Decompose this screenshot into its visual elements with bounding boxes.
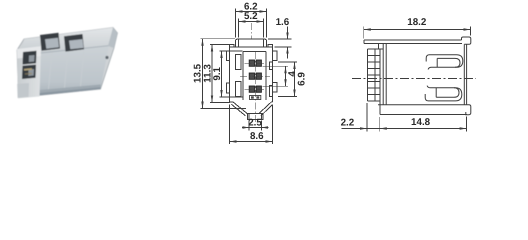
dimensions 4 / 6.9: vertical dim lines and extension lines (right) <box>263 65 289 67</box>
front opening lower <box>22 65 36 79</box>
arrowheads dimension 5.2 <box>239 20 246 22</box>
front face <box>17 46 41 98</box>
arrowheads dimension 8.6 <box>230 140 237 142</box>
right outer tabs <box>273 51 277 61</box>
top/side boundary shadow <box>22 46 109 55</box>
arrowheads dimension 13.5 <box>201 39 203 46</box>
arrowheads dimension 6.2 <box>236 10 243 12</box>
front view dimensions <box>201 9 298 145</box>
top corner steps <box>230 45 235 48</box>
arrowheads dimension 4 <box>284 66 286 73</box>
svg-text:1.6: 1.6 <box>276 17 290 28</box>
right inner rects <box>269 62 272 70</box>
dimension 5.2: extension lines and dim line (top) <box>238 19 240 38</box>
flange foot <box>379 101 381 115</box>
svg-text:18.2: 18.2 <box>407 17 427 28</box>
small hole right <box>105 56 108 59</box>
top face <box>21 28 113 56</box>
bottom diagonals <box>233 102 247 113</box>
side face striations <box>48 49 84 95</box>
svg-text:2.5: 2.5 <box>248 118 262 129</box>
svg-text:8.6: 8.6 <box>250 131 264 142</box>
arrowheads dimension 6.9 <box>293 62 295 69</box>
arrowheads dimension 2.5 (outside) <box>243 126 250 128</box>
upper clip <box>426 55 463 70</box>
lower clip <box>425 86 462 101</box>
flange column <box>367 49 369 101</box>
svg-text:9.1: 9.1 <box>212 66 223 80</box>
flange rib lines <box>368 55 381 57</box>
contact pair row 2 <box>249 73 254 79</box>
svg-text:5.2: 5.2 <box>244 11 258 22</box>
gold contacts hint <box>24 68 32 70</box>
top slot 1 <box>40 33 60 51</box>
lip inner lines <box>238 40 240 48</box>
dimension 2.5: extension lines and dim line (bottom) <box>248 121 250 131</box>
shell body walls (left double wall, bottom, right double wall) <box>382 44 384 105</box>
contact pair row 1 <box>249 60 254 66</box>
left windows <box>236 55 242 70</box>
dimensions 2.2 / 14.8: extension lines and shared dim line <box>366 103 368 132</box>
contact support block <box>250 96 261 100</box>
side dims <box>342 27 471 132</box>
bottom-left foot <box>17 83 29 98</box>
side face <box>19 46 110 98</box>
svg-text:2.2: 2.2 <box>341 118 355 129</box>
arrowhead dimension 2.2 (outside) <box>360 127 367 129</box>
body sides <box>229 47 231 102</box>
bottom right hook <box>466 105 471 115</box>
dimension 18.2: extension lines and dim line <box>363 27 365 39</box>
vertical centerline through cavity and neck <box>254 52 256 127</box>
svg-text:6.9: 6.9 <box>296 72 307 86</box>
front texts <box>193 2 308 142</box>
bottom ledges <box>230 101 234 103</box>
front arrows <box>201 10 295 142</box>
arrowheads dimension 1.6 <box>286 33 288 40</box>
contact pair row 3 <box>249 86 254 92</box>
front view contacts <box>249 60 261 100</box>
top lip <box>364 39 462 41</box>
front view centerlines <box>240 23 270 127</box>
cavity <box>242 52 244 101</box>
centerline contact row 1 <box>245 62 267 64</box>
dimensions 13.5 / 11.3 / 9.1: vertical dim lines and extension lines (left) <box>202 39 204 109</box>
connector body silhouette <box>17 28 118 98</box>
top slot 2 <box>64 34 84 52</box>
arrowheads dimension 9.1 <box>220 51 222 58</box>
right sliver face <box>108 28 118 49</box>
lip outer <box>236 39 267 47</box>
top right hook <box>462 37 471 44</box>
dimension 6.2: extension lines and dim line (top) <box>235 9 237 38</box>
arrowheads dimension 11.3 <box>211 45 213 52</box>
front face bright rim <box>17 46 41 58</box>
arrowheads dimension 14.8 <box>380 127 387 129</box>
dimension 1.6: extension lines and leader lines (top right) <box>268 38 292 40</box>
dimension 8.6: extension lines and dim line (bottom) <box>229 105 231 145</box>
neck <box>247 114 263 120</box>
bottom dark band <box>19 85 101 98</box>
body top edge <box>230 46 273 48</box>
svg-text:14.8: 14.8 <box>411 117 431 128</box>
side view horizontal centerline (dash-dot) <box>352 78 476 80</box>
centerline contact row 2 <box>240 75 270 77</box>
front opening upper <box>23 51 37 65</box>
arrowheads dimension 18.2 <box>364 28 371 30</box>
vertical centerline through lip <box>250 23 252 39</box>
step under lip <box>378 44 380 50</box>
centerline contact row 3 <box>245 88 267 90</box>
left outer tabs <box>226 51 229 61</box>
